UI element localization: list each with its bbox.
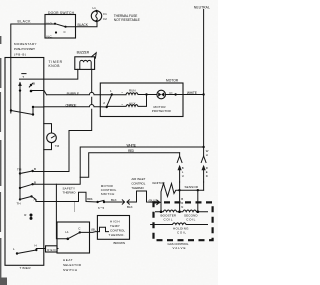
svg-text:COIL: COIL <box>186 217 195 221</box>
svg-text:BROWN: BROWN <box>114 241 126 245</box>
svg-text:TH: TH <box>17 201 21 205</box>
svg-text:(BL: (BL <box>91 227 96 231</box>
svg-text:A: A <box>34 198 36 202</box>
svg-text:SENSOR: SENSOR <box>185 185 199 189</box>
svg-text:HIGH: HIGH <box>110 219 120 223</box>
svg-text:BUZZER: BUZZER <box>77 51 90 55</box>
svg-text:SWITCH: SWITCH <box>63 268 77 272</box>
svg-text:F2: F2 <box>103 17 107 21</box>
svg-text:BRK.: BRK. <box>87 197 93 201</box>
svg-text:WHITE: WHITE <box>127 144 137 148</box>
svg-text:BLACK: BLACK <box>18 20 32 24</box>
svg-text:IGNITOR: IGNITOR <box>152 181 165 185</box>
svg-text:CONTROL: CONTROL <box>110 228 125 232</box>
svg-text:MOMENTARY: MOMENTARY <box>14 42 37 46</box>
svg-text:NOT RESETABLE: NOT RESETABLE <box>114 18 141 22</box>
svg-text:(BLU): (BLU) <box>149 199 157 203</box>
svg-text:VALVE: VALVE <box>173 246 186 250</box>
svg-text:(PB-B): (PB-B) <box>14 52 26 56</box>
svg-text:BLK: BLK <box>111 198 117 202</box>
svg-text:NEUTRAL: NEUTRAL <box>194 5 210 9</box>
svg-text:MOTOR: MOTOR <box>166 79 179 83</box>
svg-text:PUSH TO START: PUSH TO START <box>14 47 35 51</box>
svg-text:TIMER: TIMER <box>20 266 32 270</box>
svg-text:ORANGE: ORANGE <box>66 104 78 108</box>
svg-text:COIL: COIL <box>164 217 173 221</box>
svg-text:RED: RED <box>128 149 135 153</box>
svg-text:N.O.: N.O. <box>47 22 53 26</box>
svg-text:F1: F1 <box>103 12 107 16</box>
svg-text:SELECTOR: SELECTOR <box>63 263 82 267</box>
svg-text:BLACK: BLACK <box>78 23 89 27</box>
svg-text:TM: TM <box>55 144 60 148</box>
svg-text:THERMO: THERMO <box>63 190 77 194</box>
svg-text:DOOR SWITCH: DOOR SWITCH <box>48 11 75 15</box>
svg-text:B: B <box>34 167 36 171</box>
svg-text:AIR INLET: AIR INLET <box>131 177 145 181</box>
svg-text:RED: RED <box>47 248 56 252</box>
svg-text:6 * 5: 6 * 5 <box>98 206 105 210</box>
svg-text:KNOB: KNOB <box>49 64 61 68</box>
svg-text:TM: TM <box>17 167 22 171</box>
svg-text:N: N <box>181 205 183 209</box>
svg-text:T: T <box>22 75 24 79</box>
svg-text:TEMP: TEMP <box>110 224 120 228</box>
svg-text:HEAT: HEAT <box>63 258 73 262</box>
svg-text:H: H <box>206 153 208 157</box>
svg-text:BLK: BLK <box>127 205 133 209</box>
svg-text:THERMO: THERMO <box>131 186 144 190</box>
svg-text:PROTECTOR: PROTECTOR <box>152 109 172 113</box>
svg-text:SWITCH: SWITCH <box>101 192 115 196</box>
svg-text:B: B <box>34 180 36 184</box>
svg-text:COIL: COIL <box>177 230 186 234</box>
svg-text:CONTROL: CONTROL <box>131 181 145 185</box>
svg-text:WHITE: WHITE <box>187 91 198 95</box>
svg-text:RUN: RUN <box>129 89 136 93</box>
svg-text:N.C.: N.C. <box>47 35 53 39</box>
svg-text:PURPLE: PURPLE <box>67 92 80 96</box>
svg-text:U: U <box>182 174 184 178</box>
svg-text:C]: C] <box>169 91 172 95</box>
svg-text:AUX.: AUX. <box>129 101 137 105</box>
svg-text:H: H <box>35 243 37 247</box>
svg-text:L1: L1 <box>65 230 69 234</box>
svg-text:THERMO.: THERMO. <box>109 233 125 237</box>
svg-text:D: D <box>206 174 208 178</box>
svg-text:L1: L1 <box>93 6 97 10</box>
svg-text:B: B <box>33 82 35 86</box>
